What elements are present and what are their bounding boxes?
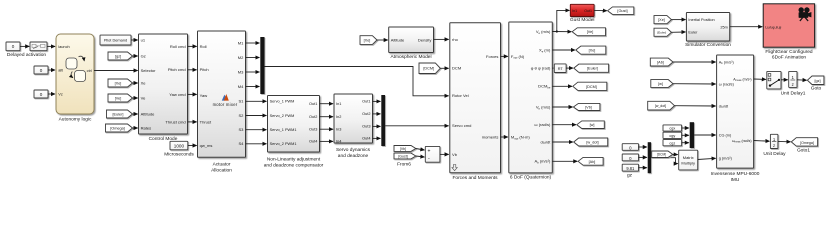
- mux cg signals: [690, 122, 694, 148]
- svg-text:Yaw cmd: Yaw cmd: [169, 92, 185, 97]
- svg-text:[gz]: [gz]: [115, 54, 121, 58]
- svg-text:In1: In1: [572, 9, 577, 13]
- wire [Euler] to Euler input: [671, 31, 685, 33]
- svg-text:0: 0: [40, 68, 43, 73]
- svg-text:ω (rad/s): ω (rad/s): [719, 82, 735, 86]
- svg-text:Servo dynamics: Servo dynamics: [336, 147, 371, 153]
- svg-text:In2: In2: [336, 115, 341, 119]
- wire moments to Mxyz: [501, 136, 508, 138]
- svg-text:Atmospheric Model: Atmospheric Model: [390, 54, 431, 60]
- unit delay Unit Delay: [770, 134, 778, 148]
- subsystem 6 DoF (Quaternion): [509, 22, 553, 173]
- svg-text:Servo_1 PWM: Servo_1 PWM: [270, 100, 295, 104]
- svg-text:[gz]: [gz]: [814, 79, 820, 83]
- goto tag [Vb]: [573, 103, 600, 110]
- svg-text:[Euler]: [Euler]: [113, 112, 124, 116]
- svg-text:S4: S4: [238, 141, 244, 146]
- svg-text:Out3: Out3: [362, 125, 370, 129]
- svg-text:S2: S2: [238, 113, 244, 118]
- goto tag [Xe]: [576, 46, 606, 54]
- svg-text:u1: u1: [141, 37, 146, 42]
- wire M1 to mux: [246, 42, 260, 44]
- svg-text:0: 0: [40, 92, 43, 97]
- svg-text:[DCM]: [DCM]: [423, 67, 434, 71]
- svg-text:[Euler]: [Euler]: [587, 67, 598, 71]
- goto tag [Gust]: [608, 7, 634, 14]
- wire [gz] to Gz: [133, 55, 138, 57]
- wire Out3 to In3: [320, 128, 333, 130]
- svg-text:Density: Density: [418, 37, 432, 42]
- from tag [Vb] (airspeed sum): [394, 146, 416, 152]
- wire cg mux to CG input: [694, 134, 716, 136]
- wire Forces to Fxyz: [501, 55, 508, 57]
- svg-text:Simulator Conversion: Simulator Conversion: [685, 42, 731, 48]
- svg-text:6 DoF (Quaternion): 6 DoF (Quaternion): [510, 175, 552, 181]
- svg-text:dω/dt: dω/dt: [540, 139, 551, 144]
- from tag [Euler]: [107, 110, 133, 118]
- subsystem Pilot Demand: [100, 35, 131, 45]
- FlightGear Configured 6DoF Animation block: [763, 4, 814, 47]
- wire M4 to mux: [246, 86, 260, 88]
- svg-text:dω/dt: dω/dt: [719, 104, 729, 108]
- svg-text:z: z: [773, 143, 775, 148]
- svg-text:+: +: [427, 149, 430, 155]
- svg-text:Forces and Moments: Forces and Moments: [452, 175, 498, 181]
- subsystem Non-Linearity adjustment and deadzone compensator: [268, 96, 320, 153]
- svg-text:motor mixer: motor mixer: [213, 102, 238, 107]
- wire domega output to [w_dot] goto: [552, 141, 573, 143]
- wire manual switch to Unit Delay1: [781, 79, 788, 81]
- wire Pilot Demand to u1: [131, 39, 138, 41]
- from tag [Euler] (simulator): [654, 28, 671, 36]
- from tag [w_dot] (imu): [648, 101, 675, 110]
- wire gravity mux to Matrix Multiply: [651, 158, 678, 164]
- wire Unit Delay to [Omega] goto: [778, 140, 791, 142]
- wire servo Out2 to mux: [373, 113, 381, 115]
- wire 9.81 to gravity mux: [639, 167, 647, 169]
- goto tag [Omega]: [791, 138, 817, 146]
- from tag [w] (imu): [651, 80, 673, 88]
- goto tag [Ve]: [572, 28, 605, 36]
- wire S2 to compensator: [246, 115, 267, 117]
- wire Ameas to manual switch: [754, 78, 766, 80]
- wire sum to Vb input: [440, 153, 449, 155]
- svg-text:Altitude: Altitude: [391, 37, 405, 42]
- svg-text:From6: From6: [397, 161, 411, 167]
- wire euler output to RT: [552, 67, 553, 69]
- svg-text:M2: M2: [238, 55, 244, 60]
- svg-text:Thrust: Thrust: [200, 119, 212, 124]
- svg-text:Servo_1 PWM1: Servo_1 PWM1: [270, 128, 297, 132]
- subsystem Control Mode: [139, 34, 188, 134]
- svg-text:Selector: Selector: [141, 68, 156, 73]
- svg-text:[Gust]: [Gust]: [617, 9, 627, 13]
- svg-text:S1: S1: [238, 99, 244, 104]
- wire S4 to compensator: [246, 143, 267, 145]
- svg-text:M1: M1: [238, 40, 244, 45]
- svg-text:cgx: cgx: [669, 127, 675, 131]
- svg-text:Goto: Goto: [811, 86, 822, 92]
- svg-text:Forces: Forces: [486, 54, 498, 59]
- svg-text:g (m/s²): g (m/s²): [719, 155, 733, 160]
- from tag [Xe]: [108, 79, 133, 87]
- subsystem Forces and Moments: [450, 23, 501, 173]
- wire branch to Gust Model: [557, 10, 570, 31]
- svg-text:In3: In3: [336, 128, 341, 132]
- wire [DCM] to Matrix Multiply: [673, 153, 678, 155]
- wire constant to Delayed activation: [20, 45, 29, 47]
- wire servo Out3 to mux: [373, 125, 381, 127]
- svg-text:Vb: Vb: [452, 152, 458, 157]
- wire S1 to compensator: [246, 100, 267, 102]
- svg-text:Out1: Out1: [584, 9, 592, 13]
- wire [Ab] to Ab input: [673, 61, 716, 63]
- wire Ab output to [Ab] goto: [552, 160, 577, 162]
- wire wmeas to Unit Delay: [754, 140, 770, 143]
- constant block 0 (launch): [6, 42, 20, 51]
- svg-text:1000: 1000: [174, 143, 185, 148]
- wire Gust Model to [Gust] goto: [594, 9, 607, 11]
- from tag [DCM] (forces): [419, 63, 440, 74]
- svg-text:moments: moments: [482, 134, 499, 139]
- from tag [Ab] (imu): [650, 58, 673, 66]
- wire [w_dot] to domega input: [675, 105, 716, 107]
- svg-text:Matrix: Matrix: [683, 155, 694, 160]
- wire cgz to mux: [682, 142, 689, 144]
- svg-text:Roll: Roll: [200, 44, 207, 49]
- goto tag [Ab]: [578, 157, 603, 165]
- svg-text:Gust Model: Gust Model: [570, 17, 595, 23]
- wire [Omega] to Rates: [133, 127, 138, 129]
- wire Matrix Multiply to g input: [698, 158, 716, 159]
- wire chart ctrl to Control Mode Selector: [94, 70, 138, 72]
- svg-text:Xe: Xe: [141, 80, 147, 85]
- svg-text:Allocation: Allocation: [211, 167, 232, 173]
- subsystem Atmospheric Model: [389, 27, 434, 53]
- wire constant to chart alti: [48, 69, 55, 71]
- svg-text:6DoF Animation: 6DoF Animation: [772, 55, 806, 61]
- svg-text:qw_ms: qw_ms: [200, 143, 213, 148]
- svg-text:[Gust]: [Gust]: [398, 155, 407, 159]
- constant 0 (gx): [622, 144, 638, 151]
- svg-text:Yaw: Yaw: [200, 93, 208, 98]
- constant block 0 (Vz): [34, 90, 48, 98]
- wire [Euler] to Attitude: [133, 113, 138, 115]
- constant 1000: [170, 141, 188, 150]
- svg-text:Attitude: Attitude: [141, 111, 155, 116]
- svg-text:[Vb]: [Vb]: [585, 106, 592, 110]
- goto tag cgy: [663, 132, 682, 138]
- wire Density to rho: [434, 38, 449, 40]
- wire Delayed activation to chart launch: [47, 45, 55, 47]
- from tag [gz]: [108, 52, 133, 60]
- constant block 0 (alti): [34, 66, 48, 74]
- wire constant to chart Vz: [48, 93, 55, 95]
- wire servo Out1 to mux: [373, 100, 381, 102]
- mux gravity vector: [648, 142, 651, 173]
- svg-text:Gz: Gz: [141, 53, 146, 58]
- goto tag [Euler]: [574, 64, 609, 72]
- svg-text:IMU: IMU: [731, 177, 740, 183]
- goto tag cgz: [663, 140, 682, 146]
- svg-text:Delayed activation: Delayed activation: [7, 52, 47, 58]
- wire 0 to gravity mux: [639, 156, 647, 158]
- svg-text:M3: M3: [238, 69, 244, 74]
- svg-text:φ θ ψ (rad): φ θ ψ (rad): [531, 66, 551, 71]
- svg-text:Out3: Out3: [309, 128, 317, 132]
- wire [Ve] to Ve: [133, 97, 138, 99]
- svg-text:0: 0: [12, 44, 15, 49]
- wire 0 to gravity mux: [639, 146, 647, 148]
- svg-text:Unit Delay: Unit Delay: [763, 151, 786, 157]
- svg-text:Out2: Out2: [362, 112, 370, 116]
- svg-text:25m: 25m: [720, 25, 727, 29]
- wire [w] to omega input: [673, 83, 716, 85]
- svg-text:[DCM]: [DCM]: [657, 153, 666, 157]
- svg-text:[w_dot]: [w_dot]: [586, 141, 598, 145]
- svg-text:M4: M4: [238, 84, 244, 89]
- svg-text:gz: gz: [627, 173, 633, 178]
- wire [Gust] to sum: [416, 156, 425, 157]
- svg-text:Inertial Position: Inertial Position: [688, 18, 714, 22]
- svg-text:[Omega]: [Omega]: [110, 126, 125, 130]
- svg-text:Thrust cmd: Thrust cmd: [165, 119, 185, 124]
- wire Unit Delay1 to [gz] goto: [797, 79, 807, 81]
- mux rotor signals: [260, 37, 264, 94]
- subsystem Simulator Conversion: [686, 13, 729, 42]
- svg-text:In4: In4: [336, 140, 342, 144]
- svg-text:Non-Linearity adjustment: Non-Linearity adjustment: [267, 156, 321, 162]
- svg-text:Multiply: Multiply: [681, 160, 695, 165]
- svg-text:[Ve]: [Ve]: [115, 96, 122, 100]
- constant 0 (gy): [622, 154, 638, 161]
- svg-text:Servo cmd: Servo cmd: [452, 123, 471, 128]
- goto tag cgx: [663, 125, 682, 131]
- from tag [Xe] (altitude): [360, 36, 377, 45]
- svg-text:Rates: Rates: [141, 125, 152, 130]
- svg-text:S3: S3: [238, 127, 244, 132]
- wire Out1 to servo dynamics In1: [320, 103, 333, 105]
- wire M2 to mux: [246, 57, 260, 59]
- svg-text:Out1: Out1: [362, 100, 370, 104]
- svg-text:Pilot Demand: Pilot Demand: [104, 38, 127, 43]
- goto tag [gz]: [807, 76, 824, 85]
- svg-text:Pitch: Pitch: [200, 67, 209, 72]
- svg-text:Unit Delay1: Unit Delay1: [781, 90, 806, 96]
- sum block: [425, 146, 440, 162]
- subsystem Invensense MPU-6000 IMU: [717, 55, 754, 168]
- svg-text:Pitch cmd: Pitch cmd: [168, 67, 186, 72]
- wire Thrust cmd: [188, 121, 197, 123]
- wire cgx to mux: [682, 127, 689, 129]
- svg-text:Out2: Out2: [309, 115, 317, 119]
- Stateflow chart Autonomy logic: [56, 34, 94, 114]
- svg-text:Out4: Out4: [362, 137, 371, 141]
- product block Matrix Multiply: [679, 150, 698, 170]
- subsystem Actuator Allocation: [198, 31, 246, 157]
- svg-text:[w]: [w]: [590, 123, 595, 127]
- wire Out4 to In4: [320, 140, 333, 142]
- svg-text:Ve: Ve: [141, 95, 146, 100]
- svg-text:[w]: [w]: [658, 82, 663, 86]
- subsystem Delayed activation: [30, 42, 47, 51]
- svg-text:[Omega]: [Omega]: [800, 141, 814, 145]
- manual switch: [767, 71, 781, 89]
- from tag [Ve]: [108, 94, 133, 102]
- svg-text:[DCM]: [DCM]: [586, 85, 597, 89]
- svg-text:and deadzone compensator: and deadzone compensator: [264, 162, 324, 168]
- svg-text:Roll cmd: Roll cmd: [170, 44, 186, 49]
- svg-text:Out4: Out4: [309, 140, 318, 144]
- svg-text:[w_dot]: [w_dot]: [655, 104, 666, 108]
- svg-text:ω (rad/s): ω (rad/s): [534, 122, 551, 127]
- svg-text:Rotor Vel: Rotor Vel: [452, 93, 469, 98]
- wire DCM output to [DCM] goto: [552, 85, 572, 87]
- svg-text:launch: launch: [58, 45, 69, 49]
- wire Out2 to In2: [320, 116, 333, 118]
- wire servo Out4 to mux: [373, 137, 381, 139]
- wire Pitch cmd: [188, 69, 197, 71]
- svg-text:Servo_2 PWM: Servo_2 PWM: [270, 114, 295, 118]
- svg-text:[Euler]: [Euler]: [657, 31, 666, 35]
- wire RT to [Euler] goto: [566, 67, 573, 69]
- wire [Xe] to Atmospheric Model: [377, 39, 388, 41]
- svg-text:Lu/uφ,θ,ψ: Lu/uφ,θ,ψ: [765, 26, 781, 30]
- svg-text:[Vb]: [Vb]: [400, 147, 406, 151]
- svg-text:9.81: 9.81: [626, 166, 635, 171]
- svg-text:rho: rho: [452, 37, 459, 42]
- svg-text:[Xe]: [Xe]: [364, 38, 371, 42]
- wire [Vb] to sum: [416, 149, 425, 151]
- svg-text:cgy: cgy: [669, 134, 675, 138]
- rate transition RT: [554, 64, 566, 73]
- svg-text:DCM: DCM: [452, 66, 462, 71]
- unit delay Unit Delay1: [789, 71, 797, 87]
- wire Yaw cmd: [188, 93, 197, 95]
- svg-text:Ab (m/s²): Ab (m/s²): [719, 59, 735, 65]
- svg-text:Out1: Out1: [309, 102, 317, 106]
- svg-text:Invensense MPU-6000: Invensense MPU-6000: [711, 171, 760, 177]
- svg-text:Servo_2 PWM1: Servo_2 PWM1: [270, 142, 297, 146]
- svg-text:CG (m): CG (m): [719, 133, 732, 137]
- svg-text:-: -: [428, 156, 430, 162]
- svg-text:[Xe]: [Xe]: [115, 81, 122, 85]
- wire Xe output to [Xe] goto: [552, 49, 575, 51]
- wire Vb output to [Vb] goto: [552, 106, 572, 108]
- svg-text:[Ab]: [Ab]: [657, 60, 664, 64]
- wire Roll cmd: [188, 45, 197, 47]
- svg-text:[Ve]: [Ve]: [587, 30, 594, 34]
- wire 1000 to qw_ms: [188, 145, 197, 147]
- wire Ve output to [Ve] goto: [552, 31, 571, 33]
- svg-text:alti: alti: [58, 68, 63, 72]
- svg-text:Vz: Vz: [58, 92, 63, 96]
- wire [Xe] to Xe: [133, 82, 138, 84]
- constant 9.81: [622, 164, 638, 171]
- wire M3 to mux: [246, 71, 260, 73]
- svg-text:Goto1: Goto1: [797, 148, 810, 154]
- wire cgy to mux: [682, 134, 689, 136]
- wire mux to Rotor Vel: [265, 67, 449, 96]
- svg-text:Autonomy logic: Autonomy logic: [59, 117, 92, 123]
- svg-text:RT: RT: [558, 67, 564, 71]
- goto tag [w_dot]: [574, 138, 608, 146]
- goto tag [w]: [577, 121, 605, 129]
- svg-text:Microseconds: Microseconds: [164, 151, 194, 157]
- wire omega output to [w] goto: [552, 124, 576, 126]
- subsystem Servo dynamics and deadzone: [334, 94, 373, 144]
- svg-text:ctrl: ctrl: [87, 69, 92, 73]
- svg-text:Euler: Euler: [688, 30, 698, 34]
- svg-text:[Ab]: [Ab]: [589, 160, 596, 164]
- junction node Ve branch: [556, 30, 558, 32]
- goto tag [DCM]: [573, 82, 607, 90]
- wire [DCM] to DCM input: [440, 67, 448, 69]
- from tag [Omega]: [106, 124, 133, 132]
- from tag [Gust]: [394, 153, 416, 159]
- svg-text:FlightGear Configured: FlightGear Configured: [765, 49, 813, 55]
- svg-text:[Xe]: [Xe]: [658, 18, 665, 22]
- wire Simulator Conversion to FlightGear: [730, 26, 763, 28]
- svg-text:Actuator: Actuator: [213, 162, 231, 168]
- subsystem Gust Model: [570, 4, 594, 16]
- wire S3 to compensator: [246, 129, 267, 131]
- from tag [Xe] (simulator): [654, 16, 671, 24]
- wire mux to Servo cmd: [385, 125, 449, 127]
- svg-text:and deadzone: and deadzone: [338, 153, 369, 159]
- svg-text:cgz: cgz: [669, 141, 675, 145]
- from tag [DCM] (gravity rotation): [652, 151, 673, 158]
- svg-text:[Xe]: [Xe]: [589, 49, 596, 53]
- svg-text:In1: In1: [336, 102, 341, 106]
- mux servo signals: [381, 95, 385, 146]
- wire [Xe] to Inertial Position: [671, 19, 685, 21]
